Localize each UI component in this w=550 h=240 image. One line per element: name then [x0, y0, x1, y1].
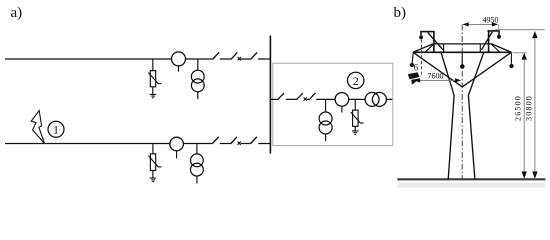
svg-text:a): a)	[11, 5, 23, 21]
svg-text:b): b)	[394, 5, 407, 21]
svg-text:26500: 26500	[514, 95, 523, 121]
svg-text:1: 1	[53, 123, 59, 137]
svg-text:7600: 7600	[428, 71, 444, 80]
svg-text:4950: 4950	[483, 16, 499, 25]
svg-text:6: 6	[414, 62, 419, 72]
svg-text:30800: 30800	[524, 95, 533, 121]
svg-text:2: 2	[353, 74, 359, 88]
